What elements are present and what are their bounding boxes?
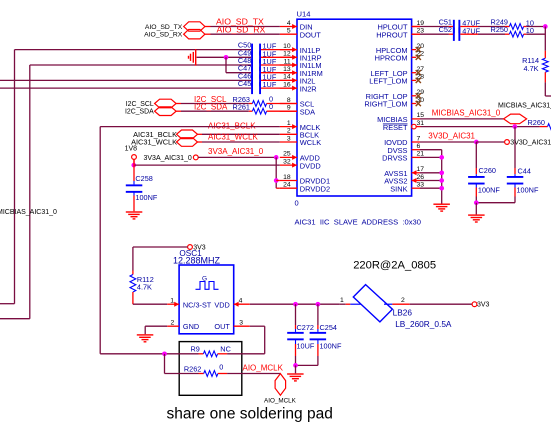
- svg-text:LB_260R_0.5A: LB_260R_0.5A: [395, 319, 452, 329]
- svg-text:1: 1: [340, 297, 344, 304]
- svg-text:AIC31_WCLK: AIC31_WCLK: [131, 138, 177, 147]
- svg-text:VDD: VDD: [214, 300, 229, 309]
- svg-text:0: 0: [269, 102, 273, 111]
- svg-text:C44: C44: [518, 167, 531, 176]
- svg-text:3V3A_AIC31_0: 3V3A_AIC31_0: [144, 155, 192, 162]
- svg-text:100NF: 100NF: [517, 185, 539, 194]
- svg-text:1: 1: [287, 120, 291, 127]
- svg-text:0: 0: [295, 198, 299, 207]
- svg-text:31: 31: [417, 120, 425, 127]
- svg-text:1UF: 1UF: [263, 80, 277, 89]
- svg-text:32: 32: [283, 158, 291, 165]
- svg-text:OUT: OUT: [214, 322, 230, 331]
- svg-text:DVDD: DVDD: [300, 161, 321, 170]
- svg-text:C45: C45: [238, 79, 251, 88]
- svg-text:share one soldering pad: share one soldering pad: [167, 405, 333, 422]
- svg-text:4: 4: [239, 297, 243, 304]
- svg-text:DRVSS: DRVSS: [382, 154, 407, 163]
- svg-text:R250: R250: [491, 25, 508, 34]
- svg-text:8: 8: [287, 97, 291, 104]
- svg-text:MICBIAS_AIC31_0: MICBIAS_AIC31_0: [0, 209, 57, 216]
- svg-text:AIC31_WCLK: AIC31_WCLK: [208, 133, 258, 142]
- svg-text:R261: R261: [233, 103, 250, 112]
- svg-text:1V8: 1V8: [125, 145, 138, 152]
- svg-text:100NF: 100NF: [478, 185, 500, 194]
- svg-text:NC/3-ST: NC/3-ST: [183, 300, 212, 309]
- svg-text:R9: R9: [191, 345, 200, 354]
- svg-text:I2C_SCL: I2C_SCL: [126, 101, 154, 108]
- svg-text:R260: R260: [528, 118, 545, 127]
- svg-text:12: 12: [283, 51, 291, 58]
- svg-text:26: 26: [417, 174, 425, 181]
- svg-text:2: 2: [401, 297, 405, 304]
- svg-text:6: 6: [417, 143, 421, 150]
- svg-text:GND: GND: [183, 322, 199, 331]
- svg-text:5: 5: [287, 28, 291, 35]
- svg-text:AIO_MCLK: AIO_MCLK: [243, 363, 284, 372]
- svg-text:HPRCOM: HPRCOM: [375, 54, 408, 63]
- svg-text:0: 0: [219, 362, 223, 371]
- svg-text:4.7K: 4.7K: [137, 282, 152, 291]
- svg-text:12.288MHZ: 12.288MHZ: [173, 255, 221, 265]
- svg-text:14: 14: [283, 74, 291, 81]
- svg-text:25: 25: [283, 151, 291, 158]
- svg-text:HPROUT: HPROUT: [376, 30, 408, 39]
- svg-text:3V3D_AIC31: 3V3D_AIC31: [510, 140, 551, 147]
- svg-text:7: 7: [417, 135, 421, 142]
- svg-text:16: 16: [283, 81, 291, 88]
- svg-text:24: 24: [283, 182, 291, 189]
- svg-text:1: 1: [170, 297, 174, 304]
- svg-text:SINK: SINK: [390, 184, 407, 193]
- svg-text:C254: C254: [320, 323, 337, 332]
- svg-text:R262: R262: [184, 364, 201, 373]
- svg-text:3: 3: [239, 319, 243, 326]
- svg-text:RIGHT_LOM: RIGHT_LOM: [364, 100, 407, 109]
- svg-text:WCLK: WCLK: [300, 138, 321, 147]
- svg-text:C272: C272: [297, 323, 314, 332]
- svg-text:10: 10: [283, 43, 291, 50]
- svg-text:I2C_SDA: I2C_SDA: [194, 103, 228, 112]
- svg-text:3: 3: [287, 135, 291, 142]
- svg-text:AIC31_BCLK: AIC31_BCLK: [208, 121, 256, 130]
- svg-text:18: 18: [283, 174, 291, 181]
- svg-text:LB26: LB26: [393, 307, 413, 317]
- svg-text:17: 17: [417, 166, 425, 173]
- svg-text:IN2R: IN2R: [300, 84, 317, 93]
- svg-text:11: 11: [284, 58, 291, 65]
- svg-text:15: 15: [417, 112, 425, 119]
- svg-text:AIO_SD_TX: AIO_SD_TX: [145, 24, 183, 31]
- svg-text:3V3A_AIC31_0: 3V3A_AIC31_0: [208, 147, 264, 156]
- svg-text:4.7K: 4.7K: [523, 64, 538, 73]
- svg-text:AIO_SD_RX: AIO_SD_RX: [217, 24, 266, 34]
- svg-text:AIO_MCLK: AIO_MCLK: [264, 397, 297, 404]
- svg-text:4: 4: [287, 20, 291, 27]
- svg-text:MICBIAS_AIC31_0: MICBIAS_AIC31_0: [498, 103, 551, 110]
- svg-text:AIO_SD_RX: AIO_SD_RX: [144, 32, 183, 39]
- svg-text:3V3D_AIC31: 3V3D_AIC31: [428, 132, 475, 141]
- svg-text:10: 10: [526, 26, 534, 35]
- svg-text:47UF: 47UF: [462, 26, 480, 35]
- svg-text:C258: C258: [135, 174, 152, 183]
- svg-text:DRVDD2: DRVDD2: [300, 184, 330, 193]
- svg-text:I2C_SDA: I2C_SDA: [125, 109, 154, 116]
- svg-text:DOUT: DOUT: [300, 30, 321, 39]
- svg-text:220R@2A_0805: 220R@2A_0805: [353, 260, 436, 272]
- svg-text:21: 21: [417, 151, 425, 158]
- svg-text:2: 2: [171, 319, 175, 326]
- svg-text:C52: C52: [439, 25, 452, 34]
- svg-text:100NF: 100NF: [135, 193, 157, 202]
- svg-text:U14: U14: [297, 9, 311, 18]
- svg-text:LEFT_LOM: LEFT_LOM: [369, 77, 407, 86]
- svg-text:SDA: SDA: [300, 107, 315, 116]
- svg-text:3V3: 3V3: [477, 302, 490, 309]
- svg-text:2: 2: [287, 128, 291, 135]
- svg-text:AIC31 IIC SLAVE ADDRESS :0: AIC31 IIC SLAVE ADDRESS :0x30: [295, 217, 421, 226]
- svg-text:C260: C260: [479, 166, 496, 175]
- svg-text:33: 33: [417, 182, 425, 189]
- svg-text:NC: NC: [220, 344, 231, 353]
- svg-text:9: 9: [287, 105, 291, 112]
- svg-text:23: 23: [417, 28, 425, 35]
- svg-text:MICBIAS_AIC31_0: MICBIAS_AIC31_0: [432, 109, 501, 118]
- svg-text:10UF: 10UF: [297, 342, 315, 351]
- svg-text:100NF: 100NF: [320, 342, 342, 351]
- svg-text:19: 19: [417, 20, 425, 27]
- svg-text:13: 13: [283, 66, 291, 73]
